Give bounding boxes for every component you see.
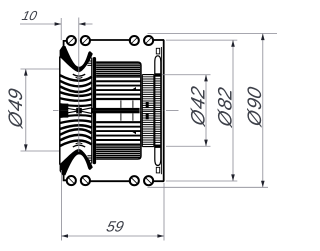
horizontal centerline left segment [53, 110, 59, 112]
arrow 59 right (points right) [157, 234, 164, 238]
arrow dim10 left (points right) [55, 22, 62, 26]
arrow O42 bottom (points down) [204, 140, 208, 147]
dim O42 dimension line [205, 75, 207, 147]
svg-text:Ø42: Ø42 [188, 85, 210, 129]
dim O49 bottom extension line [21, 150, 60, 152]
arrow O49 top (points up) [24, 69, 28, 76]
dim O42 top extension line [162, 74, 211, 76]
dim O49 dimension line [25, 69, 27, 151]
dim 59 dimension line [61, 235, 164, 237]
dim O42 bottom extension line [166, 145, 211, 147]
horizontal centerline right segment [166, 110, 179, 112]
dim O90 top extension line [148, 33, 278, 35]
dim 59 right extension line [163, 183, 165, 241]
dim O90 bottom extension line [148, 186, 269, 188]
dim 10 line left tail [20, 23, 61, 25]
svg-text:Ø82: Ø82 [215, 86, 237, 130]
arrow O90 top (points up) [261, 34, 265, 41]
groove vertical centerline [78, 18, 80, 153]
dim O82 dimension line [232, 40, 234, 181]
arrow O82 top (points up) [231, 40, 235, 47]
dim 10 line right tail [79, 23, 93, 25]
dim O82 bottom extension line [166, 180, 237, 182]
svg-text:Ø90: Ø90 [244, 85, 266, 129]
arrow O82 bottom (points down) [231, 174, 235, 181]
arrow 59 left (points left) [61, 234, 68, 238]
arrow O90 bottom (points down) [261, 181, 265, 188]
arrow O49 bottom (points down) [24, 144, 28, 151]
dim O49 top extension line [21, 68, 60, 70]
arrow O42 top (points up) [204, 75, 208, 82]
dim 59 left extension line [60, 170, 62, 241]
pulley assembly: top half [60, 36, 165, 111]
extension line left face (dim 10 / 59 top) [60, 18, 62, 40]
pulley assembly: mirrored bottom half [60, 111, 165, 186]
svg-text:Ø49: Ø49 [5, 87, 27, 131]
dim O90 dimension line [262, 34, 264, 188]
dim O82 top extension line [166, 39, 237, 41]
arrow dim10 right (points left) [79, 22, 86, 26]
